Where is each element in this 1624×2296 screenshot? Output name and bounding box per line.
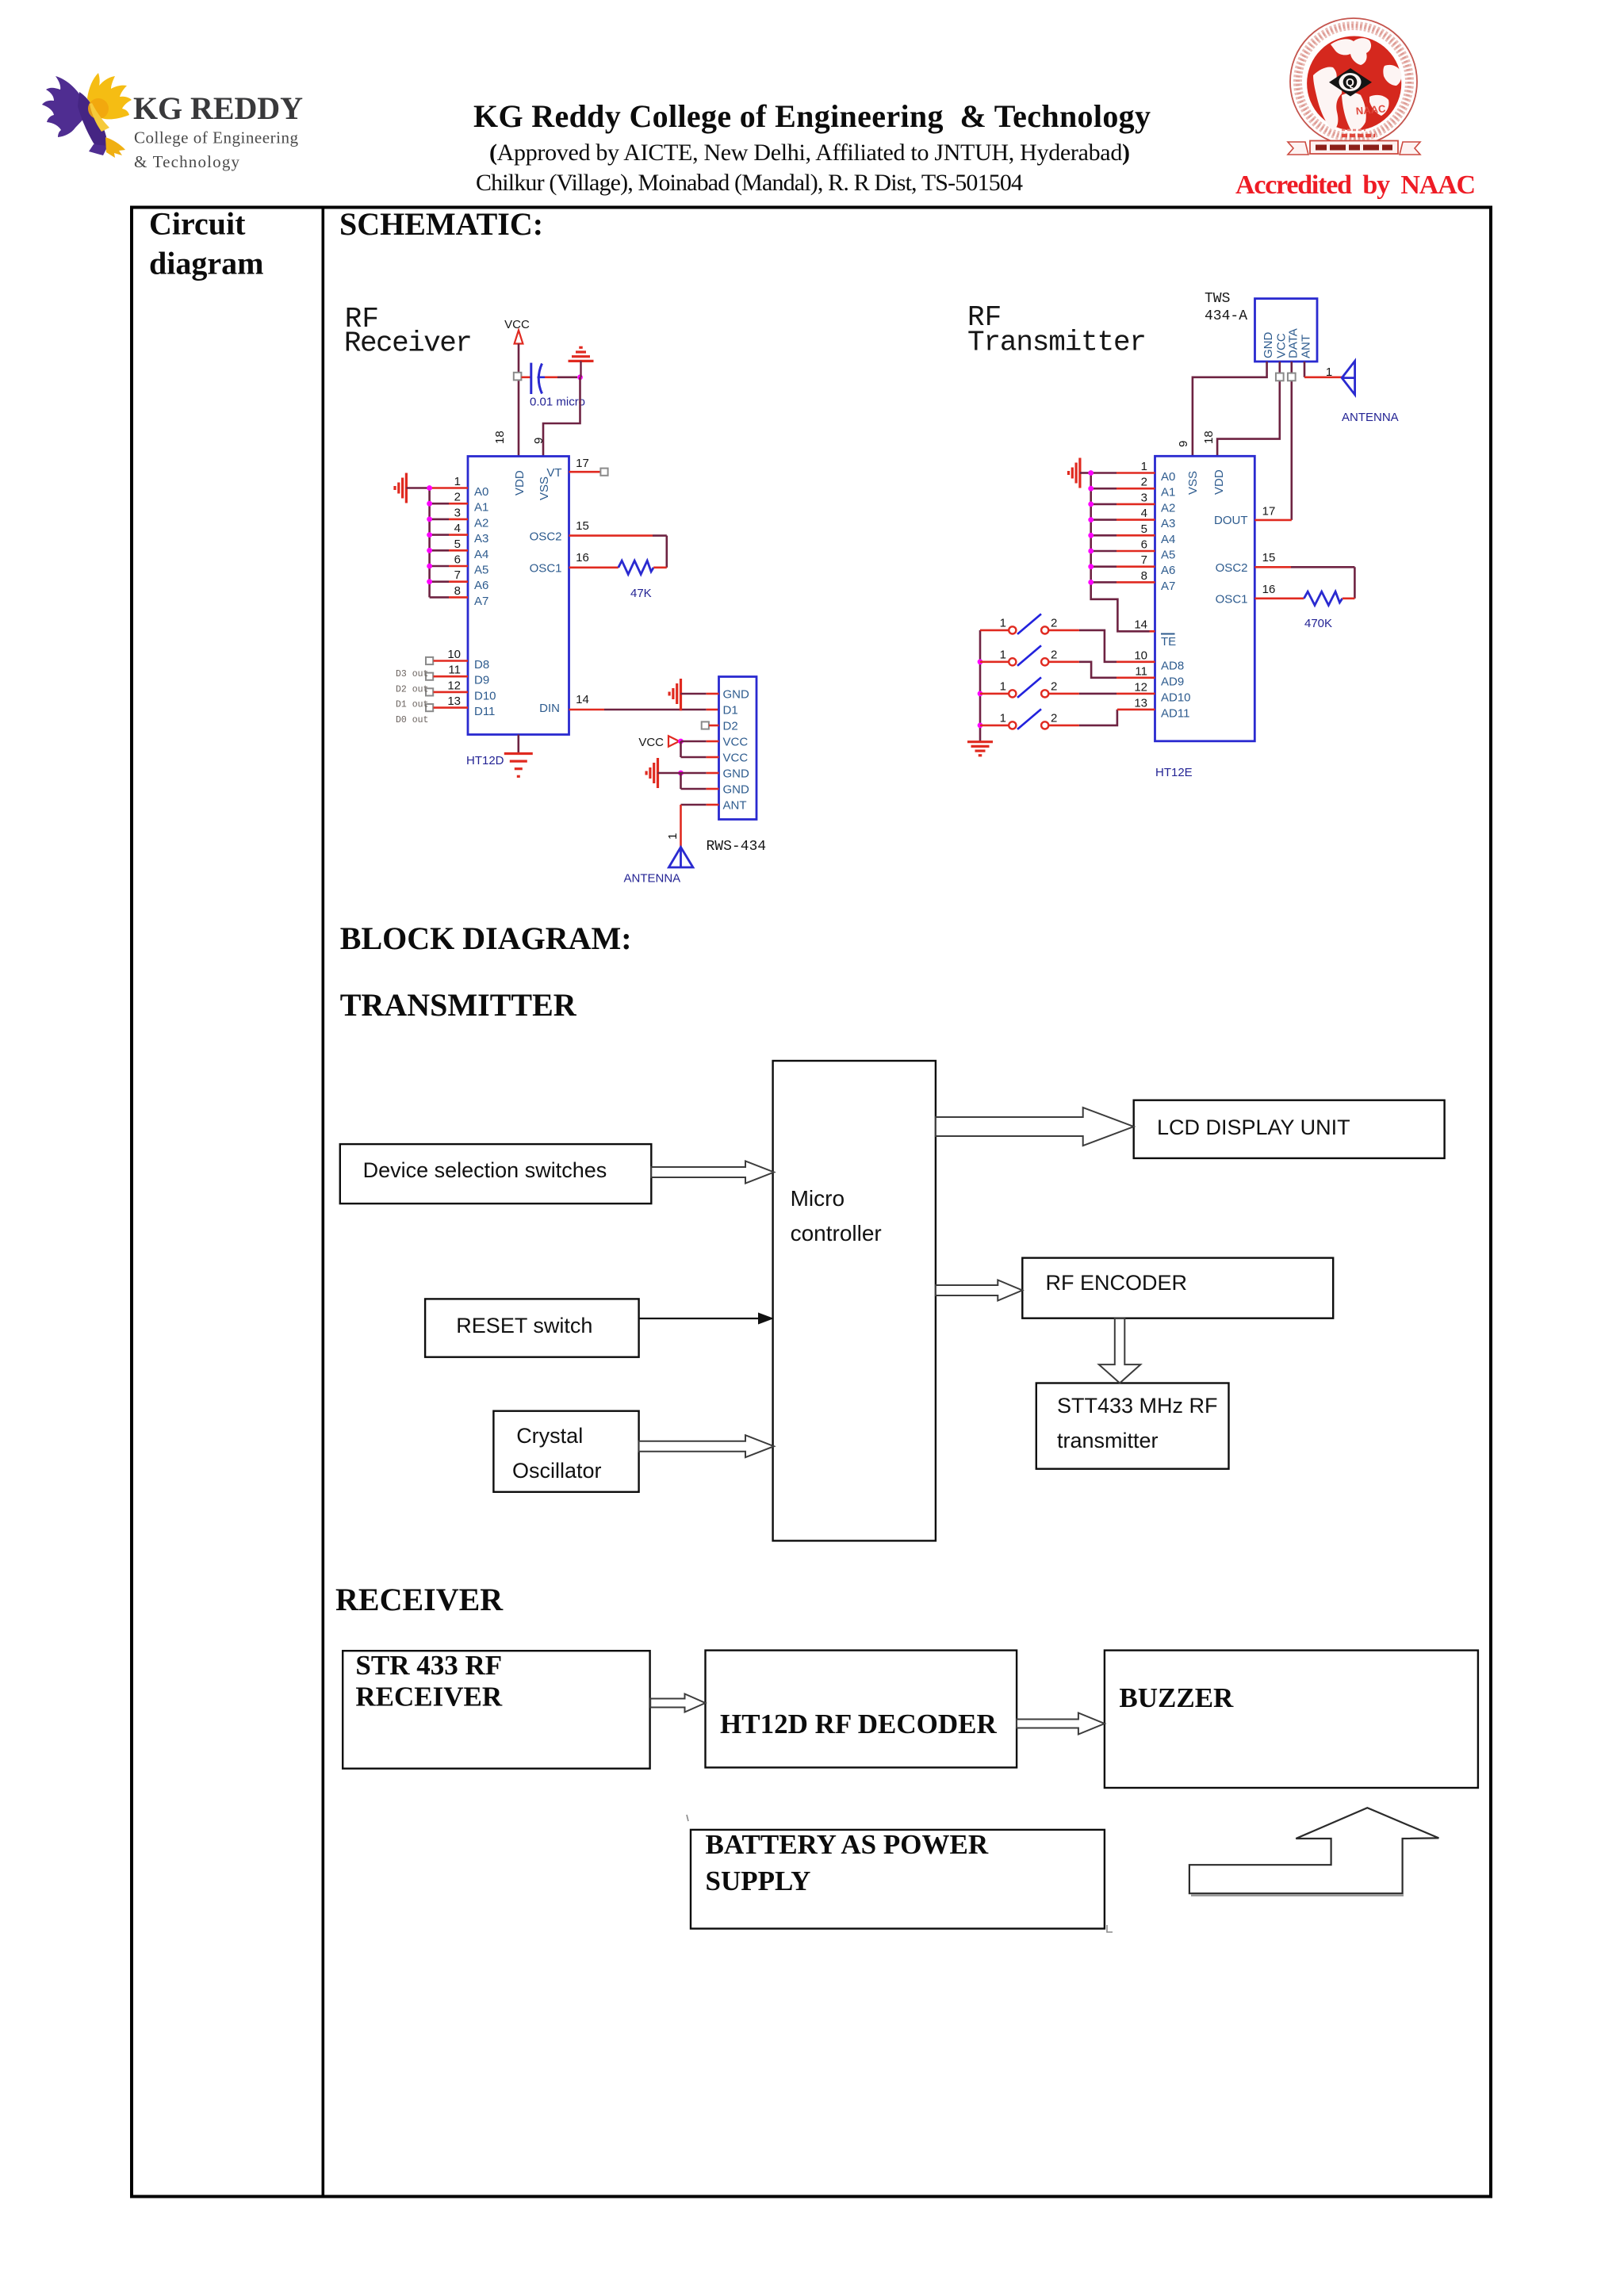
junction node bus [1088,533,1094,538]
svg-text:434-A: 434-A [1205,308,1247,324]
svg-text:KG Reddy College of Engineerin: KG Reddy College of Engineering & Techno… [473,98,1151,134]
svg-text:VCC: VCC [504,318,530,331]
svg-text:OSC1: OSC1 [530,562,562,576]
wire pin 13 D11 [434,706,469,709]
wire pin 6 A5 [430,565,449,568]
arrow RF ENCODER to STT433 transmitter (vertical) [1099,1318,1141,1383]
svg-text:HT12D RF DECODER: HT12D RF DECODER [720,1709,997,1739]
terminal square TWS DATA [1288,373,1296,381]
svg-text:A6: A6 [474,579,488,592]
svg-text:4: 4 [454,522,461,535]
svg-text:13: 13 [1134,696,1147,710]
svg-text:Micro: Micro [791,1186,845,1211]
terminal square on VCC wire [514,373,522,381]
svg-text:AD9: AD9 [1161,675,1184,688]
svg-text:8: 8 [454,584,461,598]
arrow Device selection switches to Micro controller [651,1161,774,1184]
block STR 433 RF RECEIVER [343,1651,649,1769]
svg-text:5: 5 [1141,522,1147,536]
svg-text:2: 2 [1051,679,1057,693]
power flag VCC (receiver) [504,318,530,344]
svg-text:Transmitter: Transmitter [967,327,1147,359]
svg-text:16: 16 [1262,583,1276,596]
svg-text:LCD DISPLAY UNIT: LCD DISPLAY UNIT [1157,1115,1350,1139]
arrow Micro controller to LCD DISPLAY UNIT [936,1108,1134,1146]
arrow Crystal Oscillator to Micro controller [639,1435,774,1457]
junction node GND [678,771,684,776]
terminal square pin 10 [426,657,433,664]
svg-text:14: 14 [1134,618,1147,631]
svg-text:VCC: VCC [638,736,664,749]
wire OSC2 pin 15 [1254,566,1291,568]
svg-text:RF ENCODER: RF ENCODER [1046,1271,1188,1295]
junction node bus [1088,549,1094,554]
block LCD DISPLAY UNIT [1134,1100,1445,1158]
svg-text:17: 17 [1262,505,1276,519]
junction node A1 bus [427,501,432,507]
wire VT pin 17 [569,471,600,473]
wire TWS ANT to antenna [1304,362,1306,377]
junction node switch bus [978,723,983,729]
svg-text:1: 1 [1141,460,1147,473]
svg-text:9: 9 [532,438,546,444]
svg-text:1: 1 [1000,711,1006,725]
svg-text:A3: A3 [1161,517,1175,530]
wire DOUT pin 17 [1254,519,1292,522]
svg-text:5: 5 [454,538,461,551]
svg-text:(Approved by AICTE, New Delhi,: (Approved by AICTE, New Delhi, Affiliate… [489,140,1130,166]
svg-text:GND: GND [723,767,750,781]
junction node A6 bus [427,579,432,584]
block RESET switch [425,1299,639,1357]
svg-text:ANTENNA: ANTENNA [624,872,681,886]
wire pin 1 A0 [1091,472,1116,474]
ground (above capacitor) [569,347,594,361]
svg-text:10: 10 [447,648,461,661]
svg-text:A2: A2 [1161,501,1175,515]
block HT12D RF DECODER [706,1651,1017,1768]
wire VCC pins [681,740,707,743]
svg-text:TRANSMITTER: TRANSMITTER [340,987,577,1023]
arrow HT12D decoder to BUZZER [1017,1713,1105,1735]
block Device selection switches [340,1144,652,1203]
junction node A5 bus [427,564,432,569]
junction node switch bus [978,659,983,664]
wire pin 4 A3 [1091,519,1116,521]
encoder IC U4 HT12E [1155,456,1255,741]
svg-text:16: 16 [576,551,589,564]
arrow Micro controller to RF ENCODER [936,1280,1022,1301]
wire SW2 to AD9 [1048,660,1079,663]
block STT433 MHz RF transmitter [1036,1383,1229,1469]
svg-text:transmitter: transmitter [1057,1429,1159,1452]
svg-text:GND: GND [723,783,750,797]
svg-text:& Technology: & Technology [134,152,240,171]
svg-text:AD10: AD10 [1161,691,1191,704]
svg-text:470K: 470K [1304,617,1332,630]
wire junction down to VSS pin 9 [543,377,580,457]
table divider [321,206,324,2198]
svg-text:18: 18 [493,430,507,444]
svg-text:1: 1 [1000,616,1006,629]
receiver module U2 RWS-434 [719,677,757,820]
wire ground to GND pin [681,693,707,695]
wire IC ground stem [517,735,519,754]
svg-text:8: 8 [1141,569,1147,583]
svg-text:15: 15 [576,519,589,533]
svg-text:RWS-434: RWS-434 [707,839,767,855]
resistor R2 470K [1304,591,1342,605]
junction node A0 bus [427,485,432,491]
svg-text:D0 out: D0 out [396,715,428,725]
svg-text:D11: D11 [474,705,495,718]
resistor R1 47K [619,561,653,574]
wire DOUT to TWS DATA [1291,362,1293,520]
svg-text:A2: A2 [474,516,488,530]
address bus (transmitter) [1091,473,1150,632]
svg-text:D9: D9 [474,674,489,687]
svg-text:VSS: VSS [1186,471,1200,495]
switch SW2 [980,645,1057,666]
svg-text:BUZZER: BUZZER [1119,1682,1234,1713]
junction node bus [1088,580,1094,585]
svg-text:RECEIVER: RECEIVER [335,1582,504,1617]
block Micro controller [773,1061,936,1540]
svg-text:RESET switch: RESET switch [456,1314,592,1337]
svg-text:STR 433 RF: STR 433 RF [355,1650,502,1681]
wire ground to A0 bus [406,487,428,489]
svg-text:12: 12 [1134,680,1147,694]
svg-text:OSC1: OSC1 [1216,593,1248,607]
wire TE red stub [1150,630,1155,633]
svg-text:Device selection switches: Device selection switches [363,1158,607,1182]
terminal square pin 13 [426,704,433,711]
wire SW1 to AD8 [1048,629,1079,632]
svg-text:D2 out: D2 out [396,684,428,695]
svg-text:1: 1 [454,475,461,488]
wire pin 11 D9 [434,675,469,678]
block RF ENCODER [1022,1258,1333,1318]
svg-text:TWS: TWS [1205,291,1230,307]
switch SW4 [980,709,1057,729]
svg-text:SCHEMATIC:: SCHEMATIC: [339,206,543,242]
wire resistor to corner [1342,597,1355,599]
wire OSC1 pin 16 [1254,597,1304,599]
svg-text:DOUT: DOUT [1214,514,1248,527]
svg-text:15: 15 [1262,551,1276,564]
svg-text:3: 3 [454,506,461,519]
junction node at capacitor/ground [577,374,583,380]
ground (RWS-434 top GND) [669,679,680,709]
wire VSS pin 9 to TWS GND [1193,362,1267,456]
terminal square TWS VCC [1276,373,1284,381]
wire pin 7 A6 [1091,565,1116,568]
svg-text:ANT: ANT [1300,335,1313,358]
terminal square pin 11 [426,673,433,680]
svg-text:VDD: VDD [513,470,527,496]
svg-text:VCC: VCC [723,736,749,749]
svg-text:D1: D1 [723,704,738,717]
svg-text:Accredited by NAAC: Accredited by NAAC [1235,170,1476,200]
wire resistor to corner [653,566,667,568]
svg-text:A1: A1 [1161,486,1175,499]
svg-text:A7: A7 [1161,580,1175,593]
artifact mark near battery box corner [1107,1925,1113,1932]
junction node bus [1088,564,1094,569]
svg-text:KG REDDY: KG REDDY [133,90,303,126]
svg-text:D8: D8 [474,658,489,672]
svg-text:2: 2 [1141,476,1147,489]
junction node bus [1088,517,1094,522]
wire VDD pin 18 to TWS VCC [1217,362,1280,456]
address bus (receiver) [428,488,431,598]
junction node bus [1088,502,1094,507]
terminal square D2 [702,721,709,729]
svg-text:VSS: VSS [538,476,551,500]
transmitter module U3 TWS-434A [1255,299,1318,362]
wire SW3 to AD10 [1048,693,1079,695]
svg-text:14: 14 [576,693,589,706]
svg-text:0.01 micro: 0.01 micro [530,396,585,409]
svg-text:7: 7 [454,568,461,582]
svg-text:Receiver: Receiver [344,327,473,360]
svg-text:A0: A0 [474,485,488,499]
svg-text:ANT: ANT [723,799,747,813]
wire SW4 to AD11 [1048,725,1079,727]
svg-text:11: 11 [448,664,461,677]
svg-text:1: 1 [666,833,680,840]
svg-text:7: 7 [1141,553,1147,567]
svg-text:College of Engineering: College of Engineering [134,128,299,147]
college eagle logo [42,73,132,158]
svg-text:2: 2 [454,491,461,504]
wire pin 12 D10 [434,691,469,694]
wire OSC2 pin 15 [569,534,653,537]
svg-text:17: 17 [576,457,589,470]
ground (below HT12D) [504,754,533,777]
wire pin 6 A5 [1091,550,1116,553]
svg-text:2: 2 [1051,648,1057,661]
svg-text:2: 2 [1051,616,1057,629]
svg-text:13: 13 [447,695,461,708]
junction node A3 bus [427,532,432,538]
ground (RWS-434 lower GND) [646,758,657,788]
NAAC seal logo [1288,18,1420,155]
switch SW1 [980,614,1057,634]
wire ANT pin to antenna [681,804,707,806]
junction node bus [1088,470,1094,476]
svg-text:STT433 MHz RF: STT433 MHz RF [1057,1394,1218,1418]
svg-text:RECEIVER: RECEIVER [355,1682,502,1712]
svg-text:Circuit: Circuit [149,206,246,242]
svg-text:A4: A4 [1161,533,1175,546]
svg-text:12: 12 [447,679,461,692]
arrow battery to BUZZER (L-shaped) [1189,1808,1439,1893]
svg-text:A5: A5 [1161,549,1175,562]
ground (receiver address pins) [395,473,406,503]
wire DIN to RWS-434 D1 [569,709,605,711]
junction node bus [1088,486,1094,492]
svg-text:D3 out: D3 out [396,669,428,679]
svg-text:3: 3 [1141,491,1147,504]
wire pin 3 A2 [1091,503,1116,506]
svg-text:GND: GND [1262,332,1275,359]
svg-text:A5: A5 [474,564,488,577]
terminal square pin 17 [600,469,607,476]
junction node VCC [678,739,684,744]
svg-text:A7: A7 [474,595,488,608]
svg-text:BATTERY AS POWER: BATTERY AS POWER [706,1829,989,1860]
antenna AE2 (receiver) [668,848,693,868]
wire pin 2 A1 [430,503,449,505]
wire OSC1 pin 16 [569,566,619,568]
svg-text:18: 18 [1202,430,1216,444]
table frame [132,208,1491,2197]
svg-text:Q: Q [1346,76,1354,89]
junction node switch bus [978,691,983,697]
svg-text:11: 11 [1135,664,1147,678]
wire pin 1 A0 [430,487,468,489]
wire pin 8 A7 [430,596,449,599]
svg-text:Oscillator: Oscillator [512,1459,602,1483]
svg-text:2: 2 [1051,711,1057,725]
wire pin 8 A7 [1091,581,1116,584]
junction node A4 bus [427,548,432,553]
svg-text:A0: A0 [1161,470,1175,484]
ground (transmitter address pins) [1069,458,1080,488]
svg-text:DIN: DIN [539,702,560,715]
svg-text:47K: 47K [630,587,652,600]
svg-text:9: 9 [1177,441,1190,447]
svg-text:A6: A6 [1161,564,1175,577]
svg-text:AD11: AD11 [1161,706,1189,720]
svg-text:D2: D2 [723,720,738,733]
svg-text:4: 4 [1141,507,1147,520]
svg-text:6: 6 [1141,538,1147,552]
svg-text:GND: GND [723,688,750,702]
arrow RESET switch to Micro controller [639,1318,763,1319]
wire pin 7 A6 [430,580,449,583]
svg-text:VDD: VDD [1212,469,1226,495]
wire D2 stub [709,725,719,727]
antenna AE1 (transmitter) [1342,361,1354,394]
svg-text:A1: A1 [474,501,488,515]
svg-text:ANTENNA: ANTENNA [1342,411,1399,424]
power flag VCC (RWS-434) [638,736,679,749]
wire ground stem down to D1 net [680,709,682,710]
svg-text:VT: VT [546,466,561,480]
wire pin 5 A4 [1091,534,1116,537]
svg-text:1: 1 [1000,679,1006,693]
svg-text:VCC: VCC [723,752,749,765]
svg-text:AD8: AD8 [1161,659,1184,672]
svg-text:controller: controller [791,1221,882,1246]
junction node A2 bus [427,517,432,522]
svg-text:TE: TE [1161,635,1176,649]
svg-text:6: 6 [454,553,461,567]
svg-text:A3: A3 [474,532,488,545]
svg-text:10: 10 [1134,649,1147,662]
block BUZZER [1105,1651,1478,1788]
terminal square pin 12 [426,688,433,695]
wire ground stem [580,361,581,377]
block Crystal Oscillator [493,1411,638,1492]
wire capacitor to ground junction [545,376,557,378]
wire ground to GND pins [658,772,679,775]
switch SW3 [980,677,1057,698]
wire pin 4 A3 [430,534,449,536]
svg-text:D1 out: D1 out [396,700,428,710]
svg-text:DATA: DATA [1286,328,1300,358]
svg-text:HT12D: HT12D [466,754,504,767]
svg-text:OSC2: OSC2 [530,530,562,544]
decoder IC U1 HT12D [468,457,569,735]
svg-text:OSC2: OSC2 [1216,561,1248,575]
svg-text:D10: D10 [474,689,496,702]
ground (switch common) [967,742,993,756]
switch bus (left) [979,630,982,741]
wire pin 10 D8 [434,660,469,662]
svg-text:diagram: diagram [149,246,263,281]
svg-text:HT12E: HT12E [1155,766,1193,779]
wire pin 3 A2 [430,519,449,521]
svg-text:SUPPLY: SUPPLY [706,1865,811,1896]
svg-text:A4: A4 [474,548,488,561]
wire ground to A0 bus [1080,472,1090,474]
wire pin 2 A1 [1091,488,1116,490]
svg-text:1: 1 [1326,365,1332,379]
capacitor C1 0.01 micro [522,363,546,394]
svg-text:Chilkur (Village), Moinabad (M: Chilkur (Village), Moinabad (Mandal), R.… [476,170,1023,196]
arrow STR receiver to HT12D decoder [650,1694,705,1712]
svg-text:Crystal: Crystal [516,1424,583,1448]
svg-text:BLOCK DIAGRAM:: BLOCK DIAGRAM: [340,920,632,956]
svg-text:1: 1 [1000,648,1006,661]
block BATTERY AS POWER SUPPLY [691,1830,1105,1929]
wire pin 5 A4 [430,549,449,552]
wire VCC to VDD pin 18 [518,344,520,457]
